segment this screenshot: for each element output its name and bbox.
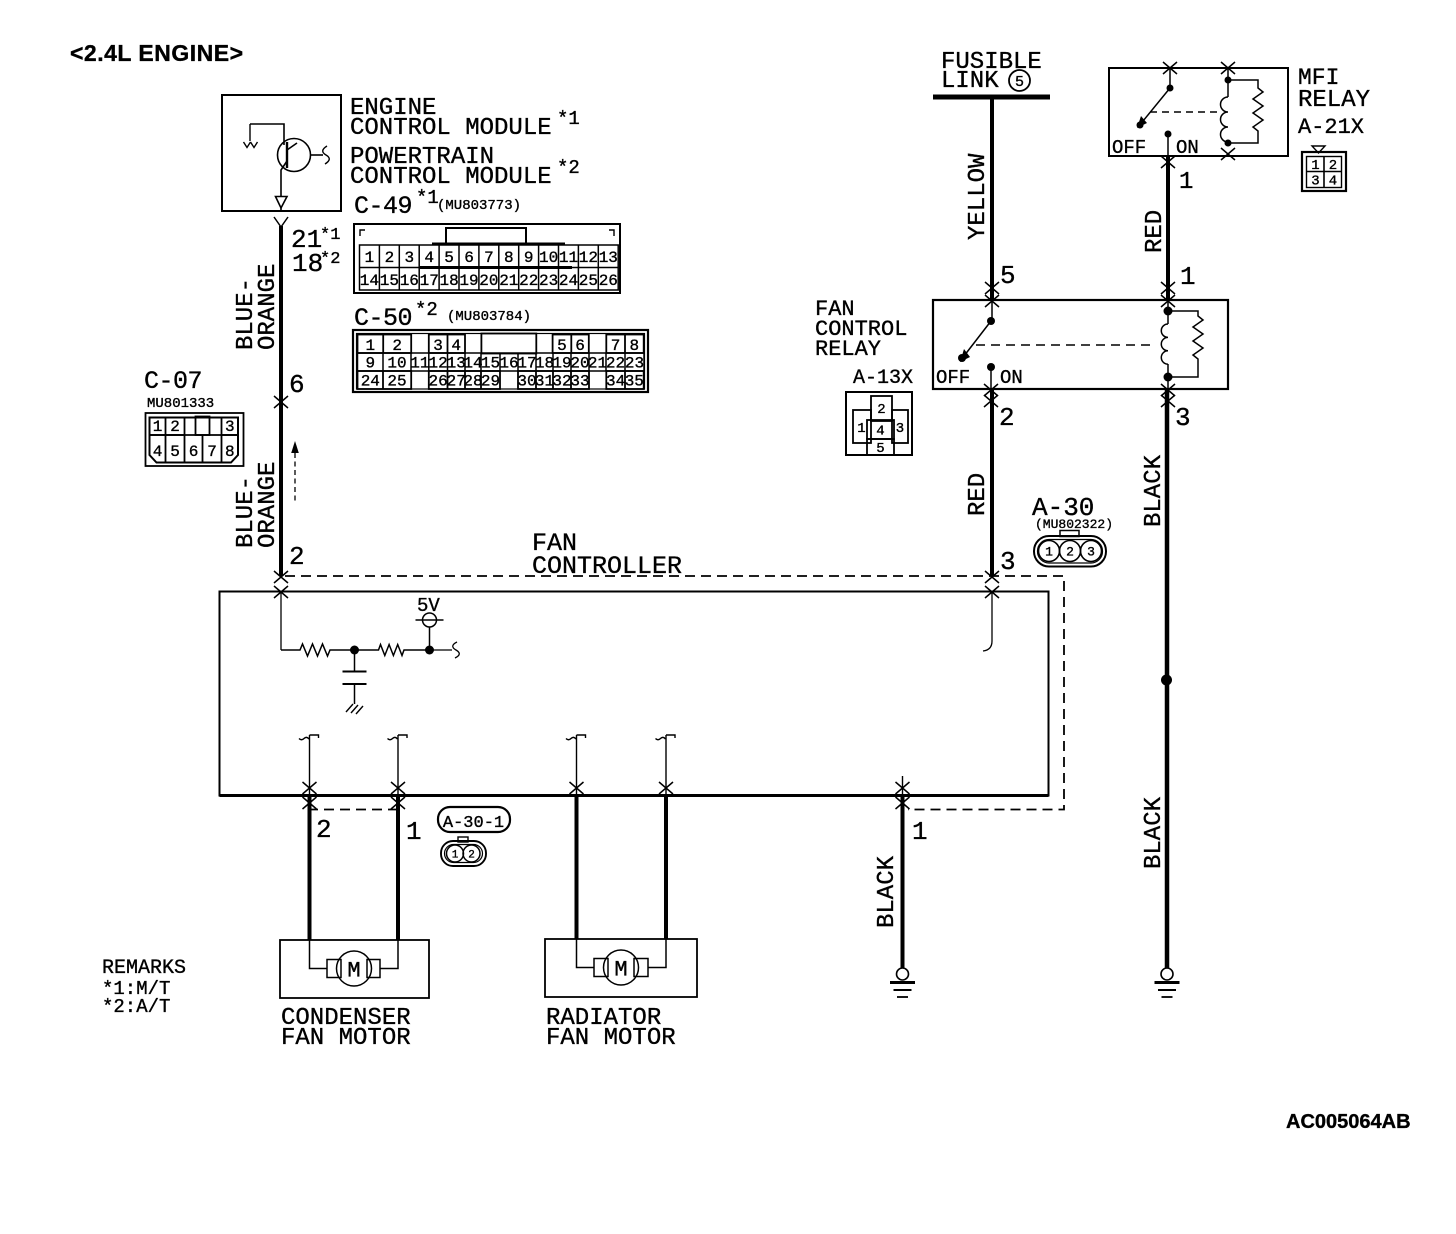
junction node on black wire <box>1161 675 1172 686</box>
svg-text:CONTROL MODULE: CONTROL MODULE <box>350 115 552 142</box>
wire BLACK (controller pin 1 to ground) <box>901 796 905 969</box>
svg-text:OFF: OFF <box>936 367 970 389</box>
svg-text:29: 29 <box>481 373 500 391</box>
wire (controller pin 1 to condenser fan motor 1) <box>396 796 400 941</box>
svg-text:12: 12 <box>579 249 598 267</box>
svg-text:3: 3 <box>1311 174 1319 190</box>
svg-text:8: 8 <box>629 337 639 355</box>
svg-text:31: 31 <box>535 373 554 391</box>
svg-text:33: 33 <box>570 373 589 391</box>
svg-text:16: 16 <box>499 355 518 373</box>
svg-text:1: 1 <box>1179 169 1193 196</box>
fan controller inner box <box>220 592 1049 796</box>
svg-text:C-50: C-50 <box>354 304 412 333</box>
svg-text:(MU803784): (MU803784) <box>447 309 531 325</box>
svg-text:5: 5 <box>1015 74 1024 91</box>
svg-text:ON: ON <box>1000 367 1023 389</box>
svg-text:3: 3 <box>1175 403 1191 433</box>
connector crossing at relay entry <box>1161 282 1175 294</box>
fusible link bus bar <box>933 95 1050 100</box>
MFI relay actuation dashed link <box>1150 111 1218 113</box>
svg-text:5: 5 <box>170 443 180 461</box>
svg-text:RELAY: RELAY <box>1298 87 1370 114</box>
svg-text:BLACK: BLACK <box>1141 796 1168 869</box>
svg-text:5: 5 <box>876 441 884 457</box>
svg-text:3: 3 <box>896 421 904 437</box>
svg-text:19: 19 <box>552 355 571 373</box>
internal ground stub <box>902 776 904 795</box>
fan controller dashed boundary <box>285 576 1064 810</box>
svg-text:*2: *2 <box>557 157 580 179</box>
svg-text:32: 32 <box>552 373 571 391</box>
svg-text:2: 2 <box>468 850 475 862</box>
connector A-30-1 (oval, pins 1 2) <box>441 837 486 866</box>
wire BLUE-ORANGE (ECM pin 21/18 down to fan controller pin 2) <box>279 226 283 576</box>
svg-text:ON: ON <box>1176 137 1199 159</box>
relay actuation dashed link <box>976 344 1156 346</box>
transistor Q1 inside ECM <box>250 124 323 211</box>
svg-text:<2.4L ENGINE>: <2.4L ENGINE> <box>70 40 244 66</box>
svg-text:1: 1 <box>1180 262 1196 292</box>
svg-text:A-21X: A-21X <box>1298 115 1364 140</box>
wire RED (MFI relay pin 1 to fan control relay pin 1) <box>1166 156 1170 300</box>
connector C-50 row1 cells <box>358 334 644 354</box>
connector C-50 row2 cells <box>358 353 645 371</box>
svg-text:4: 4 <box>876 424 884 440</box>
svg-text:7: 7 <box>207 443 217 461</box>
svg-text:3: 3 <box>225 418 235 436</box>
svg-text:ORANGE: ORANGE <box>255 264 282 350</box>
svg-text:23: 23 <box>625 355 644 373</box>
svg-text:35: 35 <box>625 373 644 391</box>
svg-text:2: 2 <box>877 402 885 418</box>
svg-text:5: 5 <box>557 337 567 355</box>
svg-text:18: 18 <box>292 249 323 279</box>
svg-text:1: 1 <box>365 249 375 267</box>
wire YELLOW (fusible link to fan control relay pin 5) <box>990 97 994 300</box>
svg-text:5: 5 <box>1000 261 1016 291</box>
transistor emitter arrow (open triangle) <box>276 197 288 209</box>
svg-text:ORANGE: ORANGE <box>255 462 282 548</box>
svg-text:8: 8 <box>504 249 514 267</box>
svg-text:22: 22 <box>519 272 538 290</box>
svg-text:4: 4 <box>153 443 163 461</box>
internal output wire (radiator fan +) <box>656 735 676 795</box>
svg-text:FAN MOTOR: FAN MOTOR <box>546 1025 676 1052</box>
svg-text:24: 24 <box>361 373 380 391</box>
svg-text:1: 1 <box>1045 545 1053 560</box>
svg-text:10: 10 <box>539 249 558 267</box>
svg-text:15: 15 <box>380 272 399 290</box>
svg-text:11: 11 <box>410 355 429 373</box>
svg-text:21: 21 <box>499 272 518 290</box>
svg-text:1: 1 <box>452 850 459 862</box>
connector crossings below relay <box>984 384 998 396</box>
svg-text:28: 28 <box>463 373 482 391</box>
svg-text:24: 24 <box>559 272 578 290</box>
internal ground hatch <box>346 704 363 714</box>
svg-text:5: 5 <box>444 249 454 267</box>
connector C-49 body <box>354 224 620 293</box>
svg-text:3: 3 <box>404 249 414 267</box>
connector A-13X pin layout <box>846 392 912 455</box>
svg-text:25: 25 <box>579 272 598 290</box>
connector crossing on blue-orange wire at C-07 junction <box>274 396 288 408</box>
MFI relay resistor (parallel with coil) <box>1228 80 1263 143</box>
svg-text:C-49: C-49 <box>354 192 412 221</box>
svg-text:(MU803773): (MU803773) <box>437 198 521 214</box>
svg-text:2: 2 <box>1329 158 1337 174</box>
radiator fan motor M2 <box>577 939 667 985</box>
wire label BLUE-ORANGE (lower) <box>233 462 282 548</box>
connector C-07 pin numbers <box>153 418 235 461</box>
svg-text:19: 19 <box>459 272 478 290</box>
svg-text:RELAY: RELAY <box>815 337 881 362</box>
connector A-30 (oval, pins 1 2 3) <box>1034 531 1106 567</box>
svg-text:4: 4 <box>451 337 461 355</box>
ground (right) <box>1155 968 1180 997</box>
node junction at 5V tap <box>425 646 434 655</box>
internal wire from pin 2 <box>280 592 282 650</box>
svg-text:6: 6 <box>289 370 305 400</box>
wire label BLUE-ORANGE (upper) <box>233 264 282 350</box>
svg-text:8: 8 <box>225 443 235 461</box>
resistor R2 <box>355 645 430 656</box>
svg-text:9: 9 <box>524 249 534 267</box>
connector crossing at fan controller entry <box>985 571 999 583</box>
svg-text:6: 6 <box>575 337 585 355</box>
wire (controller to radiator fan motor +) <box>664 796 668 940</box>
connector A-21X pin layout <box>1312 146 1325 153</box>
ECM/PCM module box <box>222 95 341 211</box>
ground (left) <box>890 968 915 997</box>
svg-text:4: 4 <box>424 249 434 267</box>
svg-text:*2: *2 <box>320 250 340 269</box>
svg-text:22: 22 <box>606 355 625 373</box>
svg-text:RED: RED <box>1142 210 1169 253</box>
svg-text:M: M <box>614 958 627 983</box>
condenser fan motor box <box>280 940 429 998</box>
svg-text:26: 26 <box>599 272 618 290</box>
svg-text:3: 3 <box>1087 545 1095 560</box>
svg-text:A-30-1: A-30-1 <box>443 814 504 833</box>
circled 5 <box>1009 70 1030 91</box>
svg-text:*1: *1 <box>557 108 580 130</box>
svg-text:16: 16 <box>400 272 419 290</box>
svg-text:2: 2 <box>289 542 305 572</box>
connector C-50 pin numbers <box>361 337 644 391</box>
fan control relay coil <box>1161 300 1168 389</box>
svg-text:2: 2 <box>170 418 180 436</box>
svg-text:14: 14 <box>360 272 379 290</box>
svg-text:AC005064AB: AC005064AB <box>1286 1111 1411 1133</box>
svg-text:1: 1 <box>365 337 375 355</box>
svg-text:*2:A/T: *2:A/T <box>102 996 170 1018</box>
svg-text:18: 18 <box>535 355 554 373</box>
internal output wire (radiator fan -) <box>566 735 586 795</box>
svg-text:11: 11 <box>559 249 578 267</box>
svg-text:C-07: C-07 <box>144 367 202 396</box>
svg-text:*1: *1 <box>416 187 439 209</box>
svg-text:3: 3 <box>1000 547 1016 577</box>
svg-text:18: 18 <box>439 272 458 290</box>
svg-text:2: 2 <box>1066 545 1074 560</box>
connector fork at ECM pin <box>274 217 288 227</box>
svg-text:1: 1 <box>1311 158 1319 174</box>
connector C-07 body <box>146 413 244 466</box>
svg-text:A-13X: A-13X <box>853 367 913 390</box>
svg-text:23: 23 <box>539 272 558 290</box>
svg-text:9: 9 <box>365 355 375 373</box>
svg-text:6: 6 <box>464 249 474 267</box>
connector C-50 body <box>353 330 648 392</box>
svg-text:FAN MOTOR: FAN MOTOR <box>281 1025 411 1052</box>
svg-text:30: 30 <box>517 373 536 391</box>
svg-text:12: 12 <box>428 355 447 373</box>
wire (controller pin 2 to condenser fan motor 2) <box>308 796 312 941</box>
svg-text:13: 13 <box>599 249 618 267</box>
internal lead with break squiggle <box>430 649 453 651</box>
fan control relay resistor (parallel with coil) <box>1168 311 1203 377</box>
svg-text:2: 2 <box>385 249 395 267</box>
svg-text:1: 1 <box>153 418 163 436</box>
svg-text:*2: *2 <box>415 299 438 321</box>
svg-text:10: 10 <box>387 355 406 373</box>
radiator fan motor box <box>545 939 697 997</box>
svg-text:20: 20 <box>570 355 589 373</box>
wire (controller to radiator fan motor -) <box>575 796 579 940</box>
svg-text:7: 7 <box>611 337 621 355</box>
svg-text:26: 26 <box>428 373 447 391</box>
resistor R1 <box>281 644 354 656</box>
svg-text:14: 14 <box>463 355 482 373</box>
svg-text:CONTROL MODULE: CONTROL MODULE <box>350 164 552 191</box>
internal output wire (condenser fan -) <box>299 735 319 795</box>
svg-text:*1: *1 <box>320 226 340 245</box>
svg-text:BLACK: BLACK <box>1141 454 1168 527</box>
fan control relay box <box>933 300 1228 389</box>
svg-text:15: 15 <box>481 355 500 373</box>
connector C-50 row3 cells <box>358 371 644 389</box>
connector C-49 pin grid <box>360 244 619 290</box>
connector crossing at fan controller entry <box>274 571 288 583</box>
svg-text:21: 21 <box>588 355 607 373</box>
svg-text:6: 6 <box>189 443 199 461</box>
svg-text:M: M <box>347 959 360 984</box>
svg-text:LINK: LINK <box>941 68 999 95</box>
node junction <box>350 646 359 655</box>
svg-text:OFF: OFF <box>1112 137 1146 159</box>
wire BLACK (fan control relay pin 3 down to ground) <box>1165 389 1170 968</box>
connector crossing at relay entry <box>985 282 999 294</box>
svg-text:1: 1 <box>406 817 422 847</box>
wire RED (fan control relay pin 2 to fan controller pin 3) <box>990 389 994 576</box>
label A-30-1 (oval) <box>438 807 510 832</box>
svg-text:17: 17 <box>517 355 536 373</box>
svg-text:2: 2 <box>392 337 402 355</box>
svg-text:2: 2 <box>999 403 1015 433</box>
svg-text:3: 3 <box>433 337 443 355</box>
svg-text:MU801333: MU801333 <box>147 396 214 412</box>
svg-text:7: 7 <box>484 249 494 267</box>
internal output wire (condenser fan +) <box>388 735 408 795</box>
chassis arrow at transistor base feed <box>244 124 258 148</box>
connector C-49 pin numbers 1-26 <box>360 249 618 290</box>
svg-text:1: 1 <box>857 421 865 437</box>
connector C-07 cells <box>150 417 239 463</box>
svg-text:17: 17 <box>420 272 439 290</box>
svg-text:34: 34 <box>606 373 625 391</box>
connector crossings at fan controller bottom <box>303 782 317 794</box>
svg-text:20: 20 <box>479 272 498 290</box>
svg-text:1: 1 <box>912 817 928 847</box>
svg-text:BLACK: BLACK <box>874 855 901 928</box>
svg-text:REMARKS: REMARKS <box>102 957 186 980</box>
svg-text:4: 4 <box>1329 174 1337 190</box>
capacitor C1 <box>343 654 367 704</box>
MFI relay box <box>1109 68 1288 156</box>
internal wire from pin 3 (hooked end) <box>983 592 992 651</box>
svg-text:YELLOW: YELLOW <box>965 153 992 240</box>
flow direction arrow (dashed, upward) <box>294 453 296 504</box>
fan control relay switch (OFF/ON) <box>964 300 992 389</box>
MFI relay switch (OFF/ON) <box>1163 62 1177 74</box>
svg-text:2: 2 <box>316 815 332 845</box>
wire break squiggle at ECM right edge <box>323 146 330 164</box>
svg-text:25: 25 <box>387 373 406 391</box>
condenser fan motor M1 <box>310 940 399 986</box>
svg-text:RED: RED <box>965 473 992 516</box>
MFI relay coil <box>1221 62 1235 74</box>
